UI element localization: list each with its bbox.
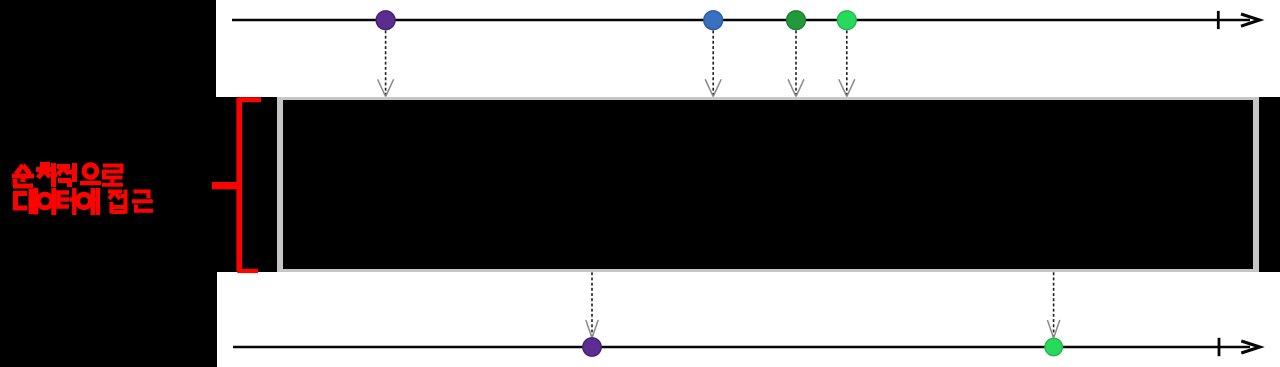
으: [84, 165, 97, 178]
red annotation text line 1: 순차적으로: [12, 163, 123, 187]
top dark-green dot: [787, 11, 806, 30]
데: [16, 188, 36, 215]
gray-bordered black rectangle (memory block): [277, 97, 1260, 272]
dashed arrow from top blue dot: [705, 31, 721, 97]
로: [102, 166, 123, 185]
top purple dot: [376, 11, 395, 30]
dashed arrow from top light-green dot: [839, 31, 855, 97]
white top band: [216, 0, 1280, 97]
접: [108, 190, 126, 214]
bottom purple dot: [583, 338, 601, 356]
순: [12, 165, 34, 182]
top timeline axis: [232, 11, 1260, 29]
근: [132, 192, 153, 211]
이: [38, 194, 52, 208]
red curly brace: [212, 97, 261, 273]
에: [77, 194, 90, 207]
white bottom band: [217, 272, 1280, 367]
dashed arrow to bottom purple dot: [586, 272, 598, 338]
dashed arrow to bottom green dot: [1047, 272, 1059, 338]
bottom timeline axis: [233, 338, 1260, 356]
bottom green dot: [1045, 338, 1062, 355]
차: [36, 163, 57, 187]
dashed arrow from top purple dot: [378, 31, 394, 97]
dashed arrow from top dark-green dot: [788, 31, 804, 97]
top blue dot: [704, 11, 723, 30]
적: [57, 163, 75, 187]
터: [59, 188, 75, 215]
top light-green dot: [837, 11, 856, 30]
red annotation text line 2: 데이터에 접근: [16, 188, 154, 215]
